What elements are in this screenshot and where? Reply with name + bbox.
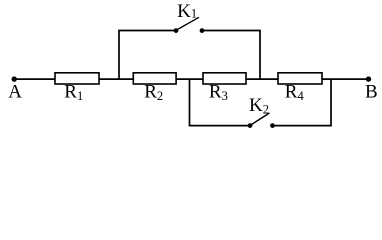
svg-text:B: B — [365, 82, 378, 103]
svg-text:A: A — [8, 82, 22, 103]
